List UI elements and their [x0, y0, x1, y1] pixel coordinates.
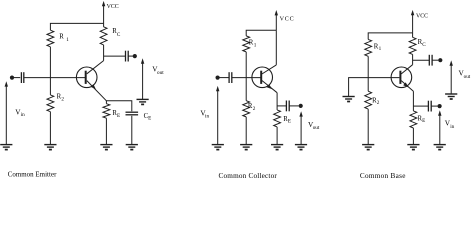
resistor R1 circuit 3 — [365, 39, 372, 56]
indicator arrow Vout circuit 1 — [141, 58, 144, 99]
svg-text:2: 2 — [377, 100, 380, 106]
wire collector diagonal circuit 3 — [401, 65, 413, 74]
node Vout circuit 1 — [133, 54, 137, 58]
resistor RC circuit 3 — [409, 37, 416, 54]
ground (RE) circuit 1 — [100, 145, 112, 150]
source arrow Vin circuit 3 — [438, 110, 441, 144]
wire input node to C-in circuit 2 — [220, 77, 229, 79]
wire R1 to base junction circuit 2 — [245, 52, 247, 78]
svg-text:Common Collector: Common Collector — [219, 172, 278, 179]
capacitor C-out circuit 3 — [429, 55, 432, 66]
ground (R2) circuit 2 — [240, 145, 252, 150]
svg-text:Common Emitter: Common Emitter — [8, 171, 57, 178]
ground (Vin source) circuit 1 — [0, 145, 12, 150]
wire C-out to output node circuit 3 — [432, 59, 438, 61]
svg-text:E: E — [288, 119, 291, 125]
capacitor C-in circuit 2 — [229, 72, 232, 83]
wire C-in to base circuit 2 — [232, 77, 261, 79]
svg-text:1: 1 — [254, 42, 257, 48]
ground (Vout reference) circuit 3 — [445, 94, 457, 99]
wire collector vertical circuit 2 — [275, 30, 277, 65]
svg-text:C: C — [422, 42, 426, 48]
svg-text:C: C — [117, 32, 121, 38]
ground (Vout reference) circuit 1 — [137, 99, 149, 104]
wire base to ground corner circuit 3 — [349, 78, 400, 97]
svg-text:1: 1 — [66, 37, 69, 43]
node Vout circuit 2 — [299, 104, 303, 108]
svg-text:out: out — [157, 70, 164, 76]
wire emitter diagonal circuit 3 — [401, 81, 413, 92]
ground (RE) circuit 3 — [407, 145, 419, 150]
ground (R2) circuit 3 — [362, 145, 374, 150]
svg-text:E: E — [422, 118, 425, 124]
wire R1 to base junction — [49, 47, 51, 78]
wire emitter junction to C-in circuit 3 — [413, 105, 428, 107]
wire R2 to ground circuit 2 — [245, 117, 247, 144]
node Vin circuit 3 — [438, 104, 442, 108]
resistor RE circuit 1 — [103, 104, 110, 119]
wire RE to ground — [105, 118, 107, 144]
svg-text:1: 1 — [379, 46, 382, 52]
wire top-left corner to R1 — [50, 23, 103, 30]
transistor Q1 (NPN) circuit 1 — [76, 67, 97, 88]
wire emitter junction to C-out circuit 2 — [277, 105, 286, 107]
emitter arrowhead Q2 — [267, 84, 273, 89]
wire C-out to output node circuit 2 — [289, 105, 298, 107]
source arrow Vin circuit 1 — [5, 81, 8, 144]
wire input node to C-in — [14, 77, 20, 79]
wire top rail circuit 3 — [368, 33, 412, 40]
ground (Vout reference) circuit 2 — [295, 145, 307, 150]
resistor R2 circuit 2 — [243, 101, 250, 117]
ground (base) circuit 3 — [343, 97, 355, 102]
wire VCC junction to RC circuit 3 — [412, 33, 414, 38]
resistor RE circuit 3 — [410, 111, 417, 128]
wire C-in to input node circuit 3 — [431, 105, 437, 107]
svg-text:Common Base: Common Base — [360, 172, 406, 179]
resistor RE circuit 2 — [274, 110, 281, 127]
wire RC to collector corner — [103, 45, 105, 61]
node Vin circuit 2 — [216, 76, 220, 80]
svg-text:2: 2 — [61, 97, 64, 103]
ground (CE) circuit 1 — [126, 145, 138, 150]
svg-text:E: E — [117, 113, 120, 119]
ground (R2) circuit 1 — [44, 145, 56, 150]
svg-text:E: E — [148, 116, 151, 122]
svg-text:VCC: VCC — [416, 13, 428, 19]
svg-text:out: out — [464, 74, 471, 80]
capacitor C-out circuit 2 — [286, 101, 289, 112]
svg-text:out: out — [313, 125, 320, 131]
wire VCC junction to RC — [103, 23, 105, 27]
source arrow Vin circuit 2 — [216, 86, 219, 144]
wire base junction to R2 — [49, 78, 51, 95]
wire RE to ground circuit 3 — [412, 128, 414, 144]
svg-text:in: in — [21, 112, 25, 118]
svg-text:in: in — [450, 124, 454, 130]
wire emitter diagonal — [87, 81, 107, 101]
resistor R1 circuit 1 — [47, 30, 54, 47]
wire RE to ground circuit 2 — [276, 127, 278, 144]
wire emitter vertical circuit 2 — [276, 93, 278, 110]
ground (RE) circuit 2 — [271, 145, 283, 150]
svg-text:in: in — [205, 113, 209, 119]
svg-text:R: R — [59, 34, 64, 41]
wire RC to collector corner circuit 3 — [412, 54, 414, 64]
wire R1 to base junction circuit 3 — [367, 56, 369, 77]
wire base junction to R2 circuit 2 — [245, 78, 247, 101]
transistor Q3 (NPN) circuit 3 — [391, 67, 412, 88]
node Vout circuit 3 — [438, 58, 442, 62]
node Vin (input) circuit 1 — [10, 76, 14, 80]
resistor R2 circuit 3 — [365, 91, 372, 109]
power VCC arrow circuit 1 — [102, 1, 105, 24]
ground (Vin source) circuit 2 — [212, 145, 224, 150]
wire CE to ground — [131, 116, 133, 145]
indicator arrow Vout circuit 3 — [450, 60, 453, 93]
capacitor C-in (input coupling) circuit 1 — [21, 72, 23, 83]
power VCC arrow circuit 2 — [275, 10, 278, 30]
capacitor C-out circuit 1 — [126, 51, 129, 62]
wire collector junction to C-out circuit 3 — [413, 59, 430, 61]
wire R2 to ground circuit 3 — [367, 109, 369, 144]
emitter arrowhead Q1 — [91, 84, 96, 89]
wire C-in to base — [24, 77, 85, 79]
power VCC arrow circuit 3 — [411, 10, 414, 33]
wire emitter corner to CE — [106, 101, 131, 111]
wire base junction to R2 circuit 3 — [367, 78, 369, 92]
wire emitter corner to RE — [105, 101, 107, 104]
wire emitter vertical circuit 3 — [412, 91, 414, 111]
transistor Q2 (NPN) circuit 2 — [252, 67, 273, 88]
svg-text:VCC: VCC — [107, 4, 119, 10]
resistor RC circuit 1 — [100, 27, 107, 45]
resistor R2 circuit 1 — [47, 95, 54, 112]
indicator arrow Vout circuit 2 — [299, 111, 302, 144]
svg-text:VCC: VCC — [280, 16, 295, 22]
wire collector diagonal — [87, 61, 104, 74]
capacitor CE (emitter bypass) circuit 1 — [126, 112, 139, 115]
wire C-out to output node — [128, 55, 133, 57]
capacitor C-in circuit 3 — [428, 101, 431, 112]
resistor R1 circuit 2 — [243, 36, 250, 52]
wire collector to C-out — [104, 55, 126, 57]
svg-text:2: 2 — [253, 106, 256, 112]
ground (Vin source) circuit 3 — [434, 145, 446, 150]
wire collector diagonal circuit 2 — [262, 65, 276, 74]
emitter arrowhead Q3 — [403, 82, 409, 87]
wire top corner to VCC rail circuit 2 — [246, 30, 276, 36]
wire R2 to ground — [49, 112, 51, 145]
wire emitter diagonal circuit 2 — [262, 81, 277, 93]
